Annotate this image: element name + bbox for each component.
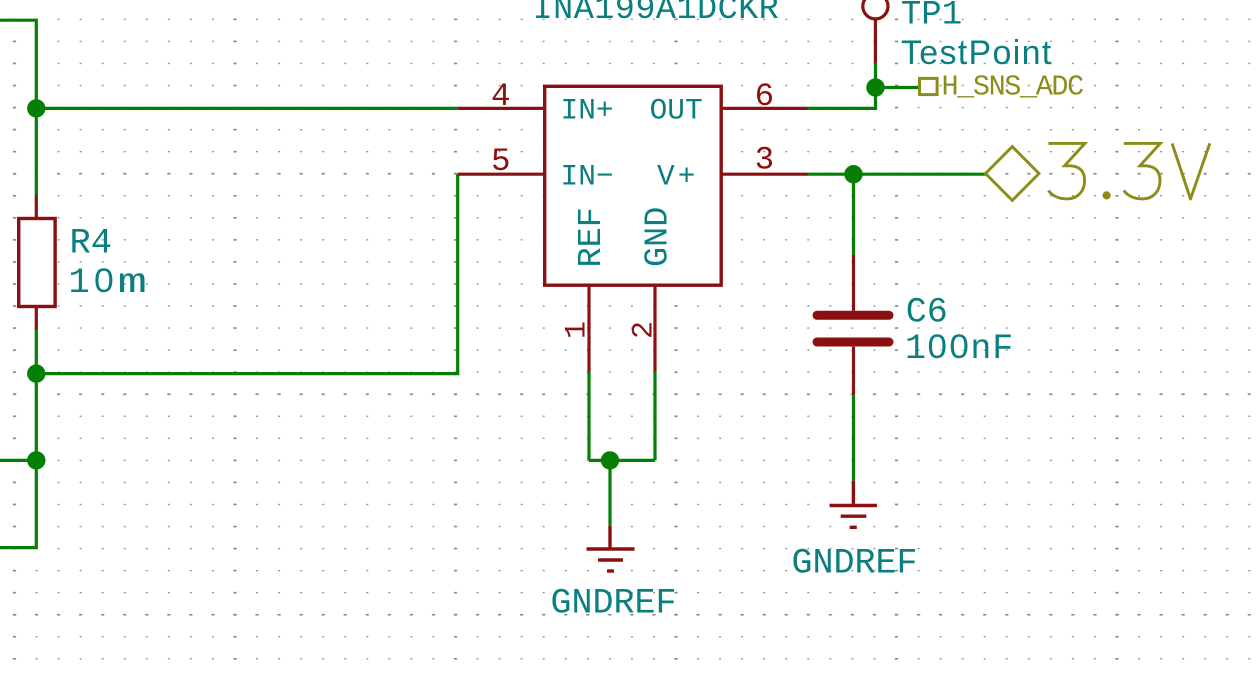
wire label stub (876, 86, 919, 89)
wire bottom joining (589, 459, 655, 462)
svg-text:REF: REF (573, 207, 611, 267)
junction E (844, 165, 862, 183)
pin 3 (721, 173, 807, 176)
junction C (27, 451, 45, 469)
IC U1 INA199A1DCKR body (545, 86, 722, 285)
ground gnd2 under C6 (830, 481, 877, 528)
wire V+ down to C6 (852, 174, 855, 255)
wire top-left L (0, 20, 36, 196)
svg-text:6: 6 (755, 78, 775, 115)
wire IN- route (36, 174, 457, 373)
svg-text:GNDREF: GNDREF (792, 543, 918, 583)
pin 2 (653, 285, 656, 371)
junction F (601, 451, 619, 469)
junction A (27, 99, 45, 117)
svg-text:OUT: OUT (650, 94, 703, 128)
3.3V dot (1103, 191, 1111, 199)
wire pin2 down (653, 372, 656, 461)
pin 4 (458, 107, 545, 110)
svg-text:TestPoint: TestPoint (901, 34, 1053, 72)
svg-text:IN−: IN− (561, 159, 614, 193)
pin 5 (458, 173, 545, 176)
svg-text:C6: C6 (906, 293, 948, 333)
svg-text:V+: V+ (657, 159, 698, 193)
svg-text:TP1: TP1 (901, 0, 962, 35)
svg-text:1: 1 (561, 321, 595, 339)
svg-text:GNDREF: GNDREF (551, 583, 677, 623)
capacitor C6 (817, 255, 889, 395)
svg-text:10: 10 (69, 262, 119, 303)
wire IN+ horizontal (36, 107, 457, 110)
svg-text:R4: R4 (70, 223, 113, 264)
svg-text:IN+: IN+ (561, 94, 614, 128)
hierarchical label H_SNS_ADC (920, 70, 1084, 103)
pin 6 (721, 107, 807, 110)
testpoint TP1 (863, 0, 888, 63)
svg-text:m: m (118, 262, 148, 303)
svg-text:GND: GND (639, 207, 677, 267)
svg-text:2: 2 (628, 321, 662, 339)
wire left vertical below R4 (0, 329, 36, 548)
svg-text:4: 4 (491, 78, 511, 115)
svg-text:5: 5 (491, 143, 511, 180)
svg-text:H_SNS_ADC: H_SNS_ADC (942, 70, 1084, 103)
svg-text:3: 3 (755, 142, 775, 179)
wire OUT to TP (808, 63, 876, 109)
power symbol 3.3V (986, 143, 1210, 200)
wire V+ to 3.3V (808, 173, 986, 176)
wire pin1 down (587, 372, 590, 461)
wire C6 to gnd (852, 395, 855, 481)
junction B (27, 364, 45, 382)
resistor R4 (19, 196, 55, 330)
junction D (866, 78, 884, 96)
wire to gnd1 (608, 460, 611, 526)
wire left branch (0, 459, 36, 462)
ground gnd1 under IC (587, 526, 635, 571)
pin 1 (587, 285, 590, 371)
svg-text:INA199A1DCKR: INA199A1DCKR (533, 0, 780, 29)
